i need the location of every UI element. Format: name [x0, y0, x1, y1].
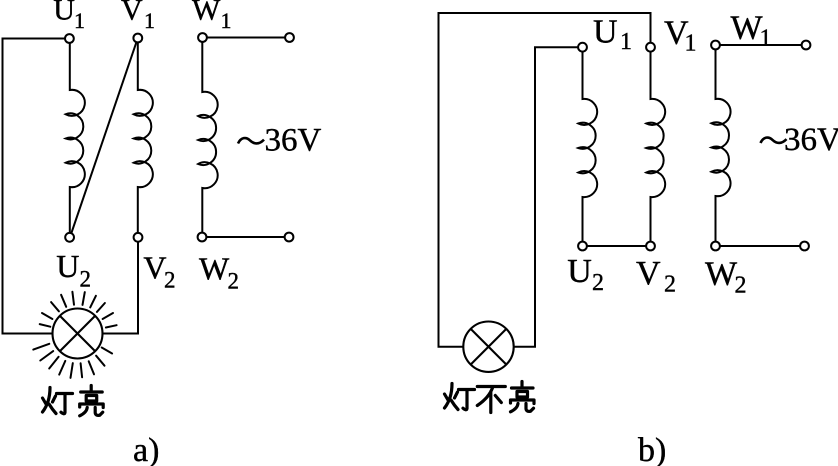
svg-text:U: U	[53, 0, 75, 27]
terminal W1 (circuit a)	[198, 33, 207, 42]
wire: circuit b, V1 up over the top to left rail down to lamp	[439, 13, 651, 347]
terminal top-right open (circuit b)	[802, 41, 811, 50]
svg-text:36V: 36V	[784, 122, 838, 158]
winding V (circuit a)	[134, 43, 153, 233]
svg-text:2: 2	[664, 272, 676, 298]
svg-text:1: 1	[760, 25, 772, 51]
lamp HL1 light rays	[33, 292, 116, 378]
lamp HL2 (not lit) circuit b	[463, 322, 513, 372]
svg-text:W: W	[199, 251, 230, 287]
svg-text:1: 1	[685, 30, 697, 56]
terminal bottom-right open (circuit b)	[800, 242, 809, 251]
svg-text:1: 1	[221, 8, 232, 33]
terminal W1 (circuit b)	[711, 41, 720, 50]
winding V (circuit b)	[646, 52, 665, 242]
terminal V1 (circuit b)	[646, 43, 655, 52]
terminal U2 (circuit b)	[578, 242, 587, 251]
terminal U1 (circuit b)	[578, 43, 587, 52]
svg-text:2: 2	[164, 267, 176, 292]
winding W (circuit b)	[711, 50, 730, 242]
wire: circuit b, lamp right up to U1	[514, 47, 578, 347]
terminal V1 (circuit a)	[133, 34, 142, 43]
svg-text:2: 2	[80, 266, 92, 291]
svg-text:U: U	[56, 248, 79, 284]
terminal U2 (circuit a)	[65, 233, 74, 242]
terminal V2 (circuit a)	[134, 233, 143, 242]
svg-text:2: 2	[228, 268, 240, 293]
svg-text:2: 2	[735, 273, 747, 299]
wire: circuit b, W2 to right open terminal	[720, 245, 800, 247]
svg-text:36V: 36V	[265, 123, 322, 159]
svg-text:b): b)	[638, 432, 666, 466]
svg-text:2: 2	[592, 270, 604, 296]
wire: circuit b, U2 to V2	[587, 245, 646, 247]
label: lamp glows (a)	[43, 388, 73, 414]
terminal bottom-right open (circuit a)	[285, 233, 294, 242]
winding W (circuit a)	[198, 42, 218, 232]
terminal W2 (circuit a)	[198, 233, 207, 242]
svg-text:V: V	[636, 255, 661, 292]
terminal top-right open (circuit a)	[285, 33, 294, 42]
terminal W2 (circuit b)	[711, 242, 720, 251]
label: lamp does not glow (b)	[445, 384, 475, 410]
svg-text:1: 1	[74, 8, 85, 33]
svg-text:U: U	[593, 14, 618, 51]
lamp HL1 (lit) circuit a	[53, 309, 103, 359]
wire: circuit a, W2 to right open terminal	[207, 236, 285, 238]
svg-text:U: U	[567, 253, 592, 290]
label ~36V (circuit b)	[761, 138, 787, 143]
wire: circuit b, W1 to right open terminal	[720, 44, 801, 46]
wire: circuit a, V2 down to lamp right side	[103, 242, 139, 334]
svg-text:W: W	[192, 0, 221, 27]
terminal V2 (circuit b)	[646, 242, 655, 251]
winding U (circuit b)	[578, 52, 597, 242]
winding U (circuit a)	[66, 43, 85, 233]
svg-text:V: V	[121, 0, 143, 27]
terminal U1 (circuit a)	[65, 34, 74, 43]
svg-text:a): a)	[133, 432, 159, 466]
wire: circuit a, W1 to right open terminal	[207, 37, 285, 39]
label ~36V (circuit a)	[238, 138, 264, 143]
svg-text:1: 1	[144, 8, 155, 33]
wire: circuit a, U1 top lead, left rail and lamp feed	[3, 39, 65, 334]
wire: circuit a, diagonal link V1 to U2	[71, 43, 136, 233]
svg-text:1: 1	[620, 29, 632, 55]
svg-text:W: W	[705, 256, 738, 293]
